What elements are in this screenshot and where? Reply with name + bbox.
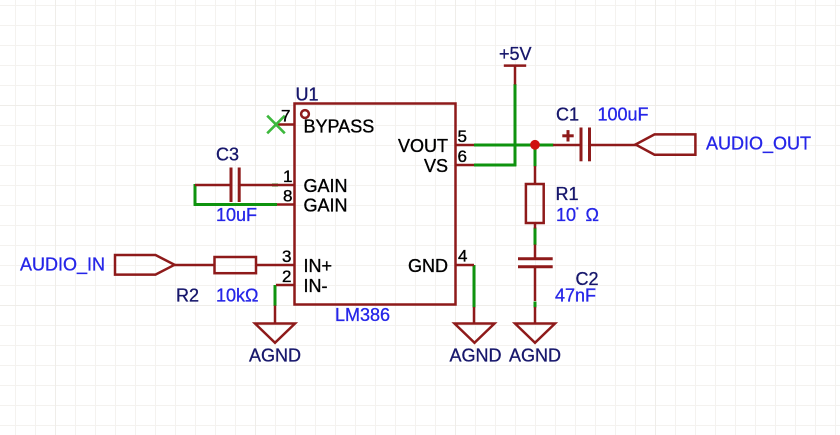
svg-text:R1: R1	[556, 184, 579, 204]
wire C1 right to port	[590, 144, 638, 147]
capacitor C3	[231, 168, 239, 203]
svg-text:4: 4	[458, 247, 467, 266]
svg-text:AUDIO_OUT: AUDIO_OUT	[706, 134, 811, 155]
wire C3 bottom to pin8	[194, 203, 277, 206]
wire GND pin4 down	[473, 265, 476, 308]
wire C2 to ground	[534, 302, 537, 308]
pin 7 stub	[276, 123, 295, 126]
wire C3 left vertical	[194, 184, 197, 206]
svg-text:U1: U1	[296, 85, 319, 105]
pin 3 wire row	[174, 264, 215, 267]
svg-text:+5V: +5V	[499, 44, 532, 64]
svg-text:2: 2	[282, 267, 291, 286]
junction node	[530, 140, 540, 150]
ground AGND under pin2	[255, 306, 295, 343]
svg-text:AGND: AGND	[450, 346, 502, 366]
svg-text:AUDIO_IN: AUDIO_IN	[20, 255, 105, 276]
wire R1 to C2	[534, 228, 537, 246]
capacitor C1	[581, 128, 590, 162]
svg-text:5: 5	[458, 127, 467, 146]
pin 1 wire row	[195, 184, 231, 187]
svg-text:LM386: LM386	[335, 305, 390, 325]
svg-text:C3: C3	[216, 145, 239, 165]
op-amp U1 body	[295, 104, 456, 305]
svg-text:IN+: IN+	[304, 256, 333, 276]
pin 8 stub	[277, 203, 295, 206]
ground AGND under pin4	[455, 307, 495, 343]
svg-text:VS: VS	[424, 156, 448, 176]
symbol marker circle	[301, 110, 309, 118]
svg-text:100uF: 100uF	[598, 105, 649, 125]
svg-text:AGND: AGND	[249, 346, 301, 366]
port AUDIO_OUT	[636, 134, 696, 154]
svg-text:GND: GND	[408, 256, 448, 276]
svg-text:47nF: 47nF	[555, 286, 596, 306]
ground AGND under C2	[515, 307, 555, 343]
pin 2 stub	[276, 284, 295, 287]
wire C1 left	[553, 144, 581, 147]
pin 4 stub	[455, 264, 474, 267]
svg-text:VOUT: VOUT	[398, 136, 448, 156]
svg-text:1: 1	[283, 167, 292, 186]
svg-text:6: 6	[458, 147, 467, 166]
wire stub pin1	[272, 184, 278, 187]
svg-text:Ω: Ω	[586, 205, 599, 225]
wire to VS pin6	[474, 164, 516, 167]
capacitor C2	[534, 245, 537, 259]
svg-text:10uF: 10uF	[216, 205, 257, 225]
pin 6 stub	[455, 164, 474, 167]
svg-text:3: 3	[282, 247, 291, 266]
pin 5 stub	[455, 144, 474, 147]
svg-text:BYPASS: BYPASS	[304, 116, 375, 136]
svg-text:10: 10	[556, 205, 576, 225]
svg-text:10kΩ: 10kΩ	[216, 286, 258, 306]
svg-text:C1: C1	[556, 105, 579, 125]
resistor R2	[215, 257, 257, 273]
port AUDIO_IN	[115, 255, 175, 275]
svg-text:7: 7	[281, 107, 290, 126]
no-connect X pin7	[267, 116, 285, 134]
svg-text:R2: R2	[176, 286, 199, 306]
svg-text:AGND: AGND	[509, 346, 561, 366]
power +5V symbol	[504, 66, 526, 85]
wire VOUT pin5 to junction and C1	[474, 144, 554, 147]
svg-text:IN-: IN-	[304, 276, 328, 296]
wire +5V vertical	[514, 84, 517, 166]
wire pin2 to ground	[274, 285, 277, 306]
svg-text:8: 8	[283, 187, 292, 206]
svg-text:GAIN: GAIN	[304, 196, 348, 216]
C1 polarity plus	[562, 130, 573, 141]
resistor R1	[534, 166, 537, 184]
svg-text:GAIN: GAIN	[304, 176, 348, 196]
wire junction down	[534, 148, 537, 167]
